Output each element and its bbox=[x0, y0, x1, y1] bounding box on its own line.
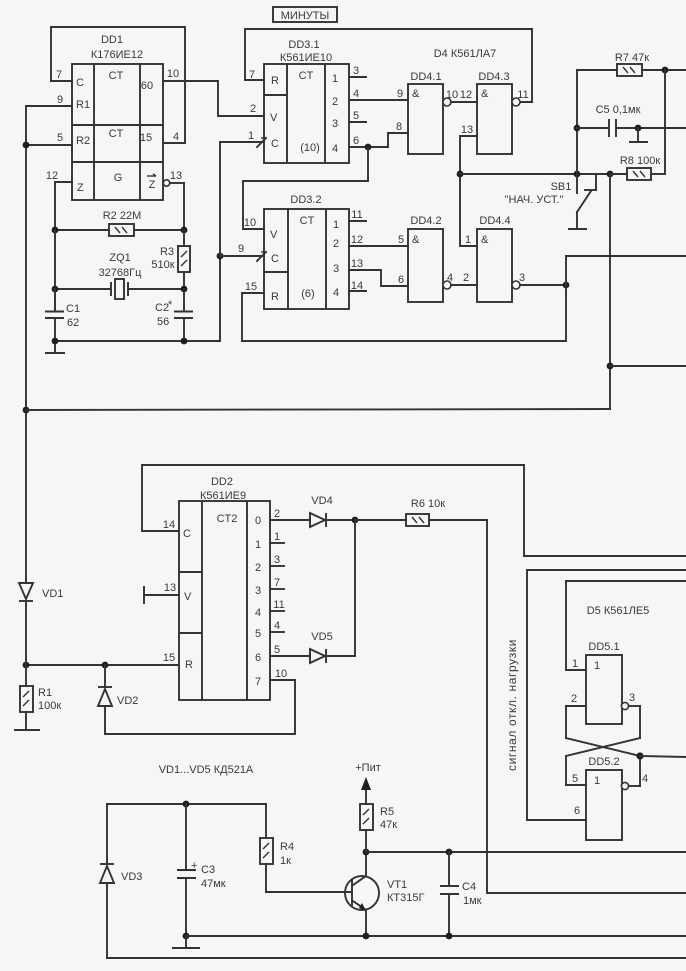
svg-text:CT: CT bbox=[109, 128, 124, 140]
svg-text:C4: C4 bbox=[462, 881, 476, 893]
diode VD4 bbox=[310, 495, 358, 527]
svg-text:56: 56 bbox=[157, 316, 169, 328]
svg-text:11: 11 bbox=[351, 209, 362, 221]
counter DD2 K561IE9 bbox=[179, 476, 270, 700]
svg-text:C5 0,1мк: C5 0,1мк bbox=[596, 104, 641, 116]
svg-text:VD1...VD5 КД521А: VD1...VD5 КД521А bbox=[159, 764, 254, 776]
bottom common rail bbox=[186, 933, 686, 940]
svg-text:2: 2 bbox=[571, 693, 577, 705]
ground at C5 bbox=[629, 128, 648, 142]
svg-text:VT1: VT1 bbox=[387, 879, 407, 891]
svg-text:32768Гц: 32768Гц bbox=[99, 267, 143, 279]
svg-text:15: 15 bbox=[163, 652, 175, 664]
svg-text:4: 4 bbox=[255, 607, 261, 619]
svg-text:C: C bbox=[183, 528, 191, 540]
wire DD4.3 pin 13 down to SB1 node bbox=[457, 124, 477, 246]
wire DD5.1 pin1 label frame to page edge bbox=[566, 580, 686, 582]
DD3.2 output 4 stub pin 14 bbox=[349, 280, 366, 292]
svg-text:(6): (6) bbox=[301, 288, 314, 300]
svg-text:*: * bbox=[168, 299, 173, 311]
DD4.2 output pin 4 to DD4.4 pin 2 bbox=[443, 272, 477, 289]
svg-text:10: 10 bbox=[167, 68, 179, 80]
svg-text:C2: C2 bbox=[155, 302, 169, 314]
ground under R1 bbox=[14, 729, 40, 731]
NAND gate DD4.3 bbox=[477, 71, 529, 154]
pin 5 R2 wire bbox=[26, 132, 72, 145]
svg-text:VD4: VD4 bbox=[311, 495, 332, 507]
svg-text:C: C bbox=[76, 77, 84, 89]
long wire to left rail bbox=[26, 409, 610, 410]
svg-text:7: 7 bbox=[249, 69, 255, 81]
cross-coupling X wires bbox=[566, 738, 644, 786]
svg-text:3: 3 bbox=[274, 554, 280, 566]
pin 15 R wire DD3.2 down to reset rail bbox=[242, 281, 264, 341]
wire crystal bottom rail to clock node bbox=[52, 253, 224, 345]
svg-text:5: 5 bbox=[572, 773, 578, 785]
svg-text:3: 3 bbox=[333, 263, 339, 275]
resistor R2 22M bbox=[52, 210, 188, 236]
wire clock node to DD3.2 C pin bbox=[220, 255, 264, 257]
counter DD3.1 K561IE10 bbox=[264, 39, 349, 163]
transistor VT1 KT315G bbox=[345, 852, 424, 936]
wire DD1 feedback loop pin4 to pin7 (label frame) bbox=[51, 27, 185, 143]
svg-text:7: 7 bbox=[255, 676, 261, 688]
NAND gate DD4.2 bbox=[398, 215, 443, 302]
svg-text:47мк: 47мк bbox=[201, 878, 226, 890]
svg-text:2: 2 bbox=[274, 508, 280, 520]
NAND gate DD4.1 bbox=[408, 71, 443, 154]
svg-text:R: R bbox=[185, 659, 193, 671]
wire clock node to DD3.1 C pin bbox=[220, 142, 264, 256]
NOR gate DD5.2 bbox=[586, 756, 622, 840]
svg-text:"НАЧ. УСТ.": "НАЧ. УСТ." bbox=[505, 194, 564, 206]
DD4.1 output pin 10 with inversion circle to DD4.3 pin 12 bbox=[443, 89, 477, 106]
NOR gate DD5.1 bbox=[586, 641, 622, 724]
svg-text:R1: R1 bbox=[76, 99, 90, 111]
svg-text:15: 15 bbox=[245, 281, 257, 293]
svg-text:DD3.2: DD3.2 bbox=[290, 194, 321, 206]
left rail from R1/R2 pins down the page bbox=[23, 106, 30, 583]
svg-text:DD4.4: DD4.4 bbox=[479, 215, 510, 227]
capacitor C1 62 bbox=[45, 289, 80, 341]
svg-text:47к: 47к bbox=[380, 819, 397, 831]
svg-text:1: 1 bbox=[255, 539, 261, 551]
pin 1 C label DD3.1 with dynamic-input arrow bbox=[248, 130, 266, 147]
wire SB1 node horizontal bbox=[460, 171, 613, 178]
pin 13 V stub with terminator bar bbox=[144, 582, 179, 604]
svg-text:1: 1 bbox=[594, 660, 600, 672]
svg-text:6: 6 bbox=[398, 274, 404, 286]
svg-text:12: 12 bbox=[46, 170, 58, 182]
svg-text:6: 6 bbox=[574, 805, 580, 817]
svg-text:R4: R4 bbox=[280, 841, 294, 853]
svg-text:4: 4 bbox=[447, 272, 453, 284]
svg-text:11: 11 bbox=[517, 89, 528, 101]
svg-text:2: 2 bbox=[255, 562, 261, 574]
svg-text:6: 6 bbox=[353, 135, 359, 147]
svg-text:ZQ1: ZQ1 bbox=[109, 252, 130, 264]
svg-text:C: C bbox=[271, 138, 279, 150]
svg-text:G: G bbox=[114, 172, 123, 184]
svg-text:VD3: VD3 bbox=[121, 871, 142, 883]
svg-text:К561ИЕ10: К561ИЕ10 bbox=[280, 52, 332, 64]
+Пит power arrow bbox=[355, 762, 381, 790]
svg-text:1: 1 bbox=[248, 130, 254, 142]
svg-text:(10): (10) bbox=[300, 142, 320, 154]
diode VD2 bbox=[98, 665, 138, 734]
pin 12 Z wire bbox=[46, 170, 72, 230]
svg-text:DD5.1: DD5.1 bbox=[588, 641, 619, 653]
svg-text:C3: C3 bbox=[201, 864, 215, 876]
svg-text:Z: Z bbox=[149, 179, 156, 191]
pin 13 Z-bar output with inversion circle bbox=[163, 170, 184, 230]
svg-text:2: 2 bbox=[250, 103, 256, 115]
capacitor C4 1mk bbox=[440, 852, 482, 936]
wire DD4.4 output up and right to page edge bbox=[566, 256, 686, 285]
svg-text:CT: CT bbox=[299, 70, 314, 82]
svg-text:10: 10 bbox=[446, 89, 458, 101]
svg-text:сигнал откл. нагрузки: сигнал откл. нагрузки bbox=[505, 639, 519, 771]
DD2 output 7 pin 10 wire to VD2 bbox=[105, 668, 295, 734]
wire left side down to DD5.2 pin 6 bbox=[527, 570, 586, 820]
svg-text:DD1: DD1 bbox=[101, 34, 123, 46]
NAND gate DD4.4 bbox=[465, 215, 512, 302]
wire collector rail to page edge bbox=[366, 849, 686, 856]
svg-text:5: 5 bbox=[398, 234, 404, 246]
svg-text:1: 1 bbox=[572, 658, 578, 670]
wire VD5 up to VD4 node bbox=[354, 520, 356, 656]
resistor R4 1k bbox=[260, 804, 352, 892]
DD3.1 output 4 pin 6 wire to DD4.1 pin 8 and DD3.2 V bbox=[243, 121, 408, 229]
svg-text:+: + bbox=[191, 860, 197, 872]
svg-text:DD2: DD2 bbox=[211, 476, 233, 488]
wire DD5 box top to page edge bbox=[527, 569, 686, 571]
switch SB1 НАЧ.УСТ. bbox=[505, 174, 596, 229]
wire left crystal column bbox=[54, 230, 56, 311]
svg-text:60: 60 bbox=[141, 80, 153, 92]
svg-text:R8 100к: R8 100к bbox=[620, 155, 660, 167]
svg-text:КТ315Г: КТ315Г bbox=[387, 892, 424, 904]
svg-text:4: 4 bbox=[274, 620, 280, 632]
svg-text:10: 10 bbox=[275, 668, 287, 680]
svg-text:1мк: 1мк bbox=[463, 895, 482, 907]
DD5.1 input 2 bbox=[566, 693, 586, 738]
ground under C3 bbox=[172, 933, 200, 948]
svg-text:&: & bbox=[481, 234, 489, 246]
svg-text:14: 14 bbox=[351, 280, 363, 292]
svg-text:+Пит: +Пит bbox=[355, 762, 381, 774]
svg-text:15: 15 bbox=[140, 132, 152, 144]
DD4.4 output pin 3 node bbox=[512, 272, 569, 289]
svg-text:R6 10к: R6 10к bbox=[411, 498, 445, 510]
svg-text:3: 3 bbox=[332, 118, 338, 130]
svg-text:R3: R3 bbox=[160, 246, 174, 258]
svg-text:CT: CT bbox=[300, 215, 315, 227]
diode VD5 bbox=[310, 631, 355, 663]
svg-text:R2: R2 bbox=[76, 135, 90, 147]
wire left branch up to R7/C5 bbox=[574, 70, 581, 174]
bottom outer line bbox=[107, 957, 686, 959]
pin 4 output 15 stub bbox=[163, 131, 185, 143]
svg-text:CT: CT bbox=[109, 70, 124, 82]
resistor R8 100k bbox=[610, 70, 665, 180]
resistor R1 100k bbox=[20, 686, 61, 729]
diode VD1 bbox=[19, 583, 63, 601]
DD2 output stubs pins 1,3,7,11,4 bbox=[270, 531, 285, 632]
DD2 output 6 pin 5 wire bbox=[270, 644, 310, 656]
svg-text:VD1: VD1 bbox=[42, 588, 63, 600]
svg-text:13: 13 bbox=[164, 582, 176, 594]
DD5.1 output 3 bbox=[621, 692, 640, 738]
svg-text:2: 2 bbox=[332, 96, 338, 108]
wire VD3/C3/R4 top rail bbox=[107, 801, 266, 808]
pin 9 C label DD3.2 with dynamic-input arrow bbox=[238, 243, 266, 261]
svg-text:0: 0 bbox=[255, 515, 261, 527]
svg-text:1: 1 bbox=[594, 775, 600, 787]
svg-text:МИНУТЫ: МИНУТЫ bbox=[281, 10, 329, 22]
capacitor C3 47mk electrolytic bbox=[177, 804, 226, 936]
svg-text:12: 12 bbox=[351, 234, 363, 246]
wire left rail VD1 to R1 node bbox=[25, 601, 27, 686]
svg-text:D4 К561ЛА7: D4 К561ЛА7 bbox=[434, 48, 497, 60]
pin 15 R wire bbox=[23, 652, 179, 668]
svg-text:1к: 1к bbox=[280, 855, 291, 867]
svg-text:3: 3 bbox=[519, 272, 525, 284]
svg-text:DD3.1: DD3.1 bbox=[288, 39, 319, 51]
DD5.2 input 5 bbox=[566, 773, 586, 785]
DD3.1 output 2 pin 4 wire to DD4.1 pin 9 bbox=[349, 88, 408, 100]
wire DD5.1 pin 1 input bbox=[566, 581, 586, 670]
svg-text:2: 2 bbox=[463, 272, 469, 284]
svg-text:4: 4 bbox=[642, 773, 648, 785]
svg-text:R1: R1 bbox=[38, 687, 52, 699]
wire SB1 node down to long rail bbox=[607, 174, 686, 409]
capacitor C5 0,1mk bbox=[577, 104, 686, 137]
svg-text:510к: 510к bbox=[151, 259, 174, 271]
svg-text:C: C bbox=[271, 253, 279, 265]
svg-text:VD5: VD5 bbox=[311, 631, 332, 643]
svg-text:5: 5 bbox=[353, 110, 359, 122]
svg-text:V: V bbox=[270, 229, 278, 241]
DD3.2 output 2 pin 12 wire to DD4.2 pin 5 bbox=[349, 234, 408, 246]
svg-text:V: V bbox=[184, 591, 192, 603]
svg-text:62: 62 bbox=[67, 317, 79, 329]
svg-text:DD4.1: DD4.1 bbox=[410, 71, 441, 83]
svg-text:12: 12 bbox=[460, 89, 472, 101]
svg-text:9: 9 bbox=[57, 94, 63, 106]
svg-text:&: & bbox=[481, 88, 489, 100]
svg-text:1: 1 bbox=[332, 73, 338, 85]
wire DD2 C pin 14 feed from right bbox=[142, 465, 524, 531]
svg-text:R5: R5 bbox=[380, 806, 394, 818]
svg-text:5: 5 bbox=[255, 628, 261, 640]
svg-text:7: 7 bbox=[56, 69, 62, 81]
svg-text:4: 4 bbox=[353, 88, 359, 100]
DD5.2 output 4 bbox=[621, 773, 648, 790]
svg-text:&: & bbox=[412, 88, 420, 100]
svg-text:DD4.2: DD4.2 bbox=[410, 215, 441, 227]
svg-text:14: 14 bbox=[163, 519, 175, 531]
svg-text:&: & bbox=[412, 234, 420, 246]
svg-text:DD5.2: DD5.2 bbox=[588, 756, 619, 768]
resistor R3 510k bbox=[151, 230, 190, 289]
wire C feed continues to page edge bbox=[524, 465, 686, 556]
pin 9 R1 wire bbox=[26, 94, 72, 106]
diode VD3 bbox=[100, 804, 142, 958]
svg-text:DD4.3: DD4.3 bbox=[478, 71, 509, 83]
svg-text:9: 9 bbox=[397, 88, 403, 100]
svg-text:2: 2 bbox=[333, 238, 339, 250]
pin 10 output 60 wire to DD3.1 V bbox=[163, 68, 264, 116]
svg-text:1: 1 bbox=[333, 219, 339, 231]
DD3.1 output 3 stub pin 5 bbox=[349, 110, 366, 122]
svg-text:R2 22М: R2 22М bbox=[103, 210, 142, 222]
ground under C1 bbox=[45, 341, 65, 353]
svg-text:3: 3 bbox=[629, 692, 635, 704]
svg-text:13: 13 bbox=[351, 258, 363, 270]
svg-text:11: 11 bbox=[273, 599, 284, 611]
label МИНУТЫ bbox=[273, 7, 337, 22]
svg-text:100к: 100к bbox=[38, 700, 61, 712]
svg-text:13: 13 bbox=[461, 124, 473, 136]
svg-text:К176ИЕ12: К176ИЕ12 bbox=[91, 49, 143, 61]
resistor R5 47k bbox=[360, 789, 397, 855]
DD3.2 output 1 stub pin 11 bbox=[349, 209, 366, 221]
capacitor C2* 56 bbox=[155, 289, 193, 341]
wire latch output tap to page edge bbox=[640, 756, 686, 757]
crystal ZQ1 32768Hz bbox=[52, 252, 188, 299]
svg-text:C1: C1 bbox=[66, 303, 80, 315]
svg-text:VD2: VD2 bbox=[117, 695, 138, 707]
svg-text:4: 4 bbox=[173, 131, 179, 143]
counter DD1 K176IE12 bbox=[72, 34, 163, 200]
svg-text:13: 13 bbox=[170, 170, 182, 182]
svg-text:3: 3 bbox=[255, 585, 261, 597]
svg-text:1: 1 bbox=[274, 531, 280, 543]
svg-text:D5 К561ЛЕ5: D5 К561ЛЕ5 bbox=[587, 605, 650, 617]
svg-text:3: 3 bbox=[353, 65, 359, 77]
svg-text:1: 1 bbox=[465, 234, 471, 246]
svg-text:10: 10 bbox=[244, 217, 256, 229]
wire DD4.4 output down to DD3.2 reset rail bbox=[242, 285, 566, 341]
resistor R6 10k bbox=[355, 498, 487, 526]
svg-text:R: R bbox=[271, 75, 279, 87]
svg-text:5: 5 bbox=[57, 132, 63, 144]
svg-text:7: 7 bbox=[274, 577, 280, 589]
DD3.1 output 1 stub pin 3 bbox=[349, 65, 366, 77]
DD3.2 output 3 pin 13 wire to DD4.2 pin 6 bbox=[349, 258, 408, 286]
svg-text:6: 6 bbox=[255, 652, 261, 664]
svg-text:V: V bbox=[270, 112, 278, 124]
svg-text:R: R bbox=[271, 291, 279, 303]
DD2 output 0 pin 2 wire bbox=[270, 508, 310, 520]
wire DD3.1 R pin7 loop to DD4.3 output (D4 label frame) bbox=[245, 29, 532, 102]
svg-text:SB1: SB1 bbox=[551, 181, 572, 193]
svg-text:К561ИЕ9: К561ИЕ9 bbox=[200, 490, 246, 502]
wire R6 down to load-off signal line bbox=[487, 520, 686, 893]
svg-text:CT2: CT2 bbox=[217, 513, 238, 525]
svg-text:8: 8 bbox=[396, 121, 402, 133]
svg-text:4: 4 bbox=[332, 143, 338, 155]
pin 7 C stub bbox=[51, 69, 72, 81]
svg-text:5: 5 bbox=[274, 644, 280, 656]
svg-text:Z: Z bbox=[77, 182, 84, 194]
svg-text:R7 47к: R7 47к bbox=[615, 52, 649, 64]
counter DD3.2 K561IE10 bbox=[264, 194, 349, 309]
resistor R7 47k bbox=[577, 52, 686, 76]
svg-text:4: 4 bbox=[333, 287, 339, 299]
svg-text:9: 9 bbox=[238, 243, 244, 255]
